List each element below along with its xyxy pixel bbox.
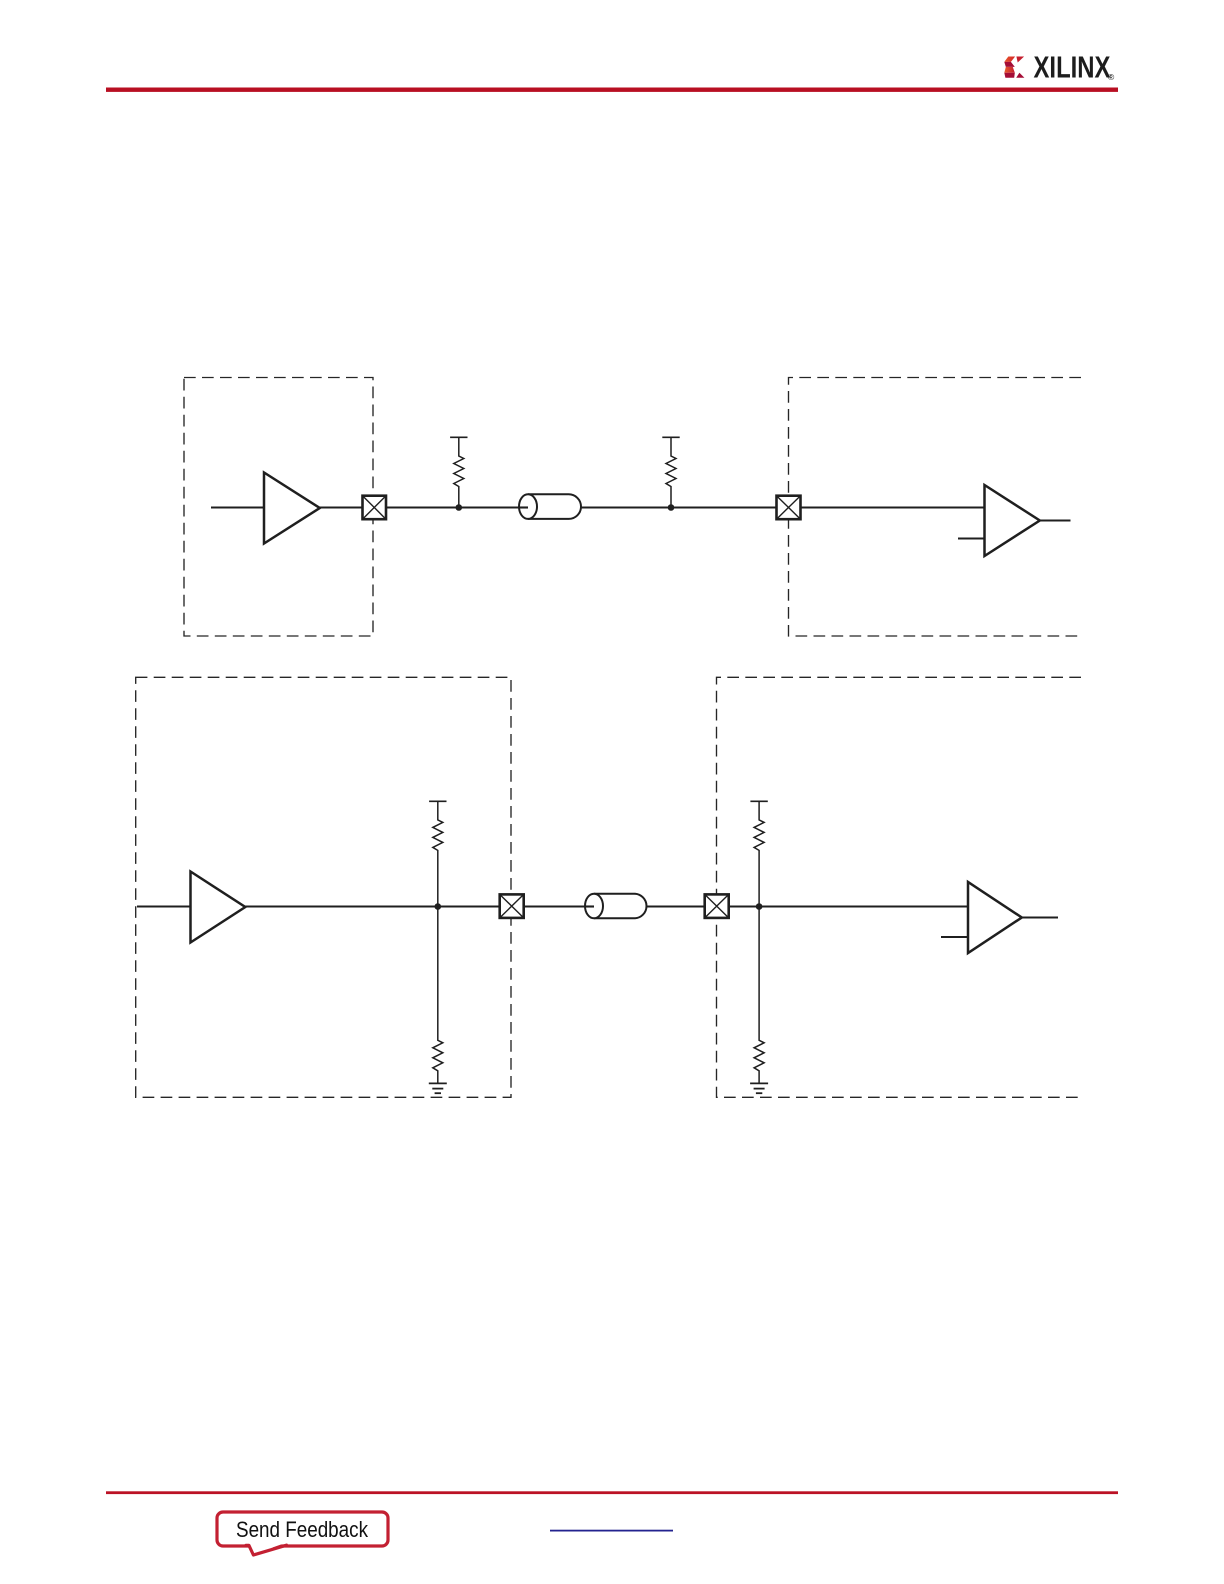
wire pad to transmission line xyxy=(524,905,594,907)
pad X4 xyxy=(705,894,729,918)
resistor R3 pull-up xyxy=(429,801,446,906)
footer rule xyxy=(106,1491,1118,1494)
transmission line Z0 xyxy=(519,494,581,519)
junction node B xyxy=(668,504,675,511)
wire driver input xyxy=(211,506,264,508)
wire driver to pad xyxy=(245,905,500,907)
wire driver to pad xyxy=(320,506,363,508)
ground xyxy=(750,1083,768,1093)
header rule xyxy=(106,88,1118,92)
junction node C xyxy=(435,903,442,910)
wire pad to receiver xyxy=(729,905,968,907)
pad X3 xyxy=(500,894,524,918)
wire transmission line to pad xyxy=(647,905,705,907)
Xilinx logo mark xyxy=(1004,57,1024,78)
junction node D xyxy=(756,903,763,910)
link underline xyxy=(550,1530,673,1532)
svg-text:Send Feedback: Send Feedback xyxy=(236,1517,369,1542)
resistor R2 pull-up xyxy=(662,437,679,507)
pad X2 xyxy=(777,496,801,520)
wire transmission line to pad xyxy=(581,506,777,508)
svg-text:®: ® xyxy=(1108,72,1115,82)
receiver buffer U4 xyxy=(968,882,1022,953)
wire receiver output xyxy=(1022,916,1059,918)
wire vref stub xyxy=(958,537,985,539)
transmission line Z0 xyxy=(585,894,647,919)
resistor R5 pull-up xyxy=(750,801,767,906)
wire pad to receiver xyxy=(801,506,985,508)
driver buffer U1 xyxy=(264,473,320,544)
Send Feedback button xyxy=(217,1512,388,1555)
resistor R6 pull-down xyxy=(754,907,764,1084)
resistor R4 pull-down xyxy=(433,907,443,1084)
wire driver input xyxy=(137,905,191,907)
driver IC dashed boundary box xyxy=(184,378,373,637)
driver IC dashed boundary box xyxy=(136,677,511,1097)
svg-text:XILINX: XILINX xyxy=(1034,50,1111,85)
junction node A xyxy=(456,504,463,511)
ground xyxy=(429,1083,447,1093)
receiver IC dashed boundary box xyxy=(717,677,1082,1097)
wire pad to transmission line xyxy=(386,506,528,508)
wire vref stub xyxy=(941,936,968,938)
wire receiver output xyxy=(1040,519,1071,521)
pad X1 xyxy=(363,496,387,520)
driver buffer U3 xyxy=(191,872,246,943)
resistor R1 pull-up xyxy=(450,437,467,507)
receiver IC dashed boundary box xyxy=(789,378,1082,637)
receiver buffer U2 xyxy=(985,485,1040,556)
